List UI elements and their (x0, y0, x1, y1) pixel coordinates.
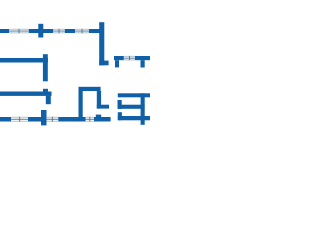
window W5 (11, 117, 28, 122)
window W7 (86, 117, 94, 122)
door stub bump (96, 115, 101, 118)
center room top bar (79, 87, 101, 91)
bottom wall segment C (58, 117, 85, 122)
corner V5 (46, 96, 51, 105)
rail 2 with corner (118, 100, 145, 109)
center room foot (97, 105, 109, 109)
window W4 (124, 56, 135, 60)
wall top exterior segment C (65, 29, 75, 33)
door stub S2 (141, 60, 145, 67)
wall junction stub V7 (41, 110, 47, 125)
middle-left wall M2 (0, 92, 52, 96)
middle-left wall M1 (0, 58, 48, 63)
window W1 (9, 29, 29, 34)
wall junction stub V1 (38, 24, 43, 38)
bottom wall segment D (94, 117, 111, 122)
center room right leg (97, 91, 101, 109)
window W6 (47, 117, 59, 122)
window W2 (53, 29, 65, 34)
door stub V4 (43, 89, 48, 93)
bottom wall segment B (28, 117, 47, 122)
wall top exterior segment A (0, 29, 9, 33)
door stub S1 (115, 60, 119, 67)
right vertical wall (141, 93, 145, 125)
wall top exterior segment D (89, 29, 102, 33)
upper-right wall R1 (114, 56, 150, 60)
bottom wall segment A (0, 117, 11, 122)
rail 3 with tick (118, 112, 150, 120)
wall top exterior segment B (29, 29, 54, 33)
rail 1 top (118, 93, 150, 97)
wall bar V3 (43, 54, 48, 81)
window W3 (75, 29, 89, 34)
corner wall V2 with foot (99, 22, 108, 65)
center room left leg (79, 87, 83, 122)
